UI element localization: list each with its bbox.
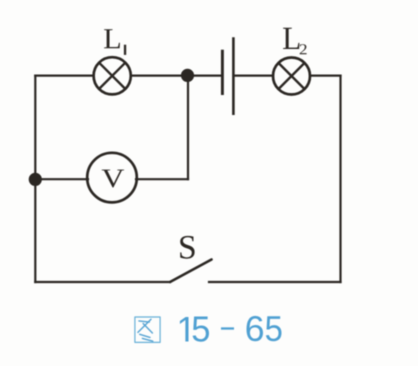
caption: 65 bbox=[246, 316, 281, 341]
wire voltmeter branch left bbox=[35, 178, 88, 180]
lamp L1 bbox=[94, 57, 131, 94]
node A (top junction) bbox=[181, 69, 194, 82]
battery B bbox=[222, 37, 233, 115]
label L1 bbox=[104, 29, 126, 55]
voltmeter V bbox=[87, 153, 137, 203]
wire voltmeter branch vertical bbox=[187, 76, 189, 180]
switch S bbox=[170, 260, 212, 283]
wire bottom-left segment bbox=[35, 281, 170, 283]
caption: 15 bbox=[180, 316, 209, 341]
wire left vertical bbox=[34, 76, 36, 282]
wire right vertical bbox=[339, 76, 341, 282]
caption: 图 character (hand-drawn) bbox=[135, 317, 160, 342]
wire top-left segment bbox=[35, 74, 93, 76]
caption: dash bbox=[221, 327, 234, 329]
wire between L1 and battery bbox=[131, 74, 221, 76]
wire bottom-right segment bbox=[209, 281, 341, 283]
wire top-right segment bbox=[310, 74, 341, 76]
wire between battery and L2 bbox=[235, 74, 274, 76]
node B (left junction) bbox=[29, 173, 42, 186]
label L2 bbox=[283, 28, 307, 54]
wire voltmeter branch right bbox=[136, 178, 188, 180]
lamp L2 bbox=[273, 58, 310, 95]
label S bbox=[180, 236, 194, 259]
